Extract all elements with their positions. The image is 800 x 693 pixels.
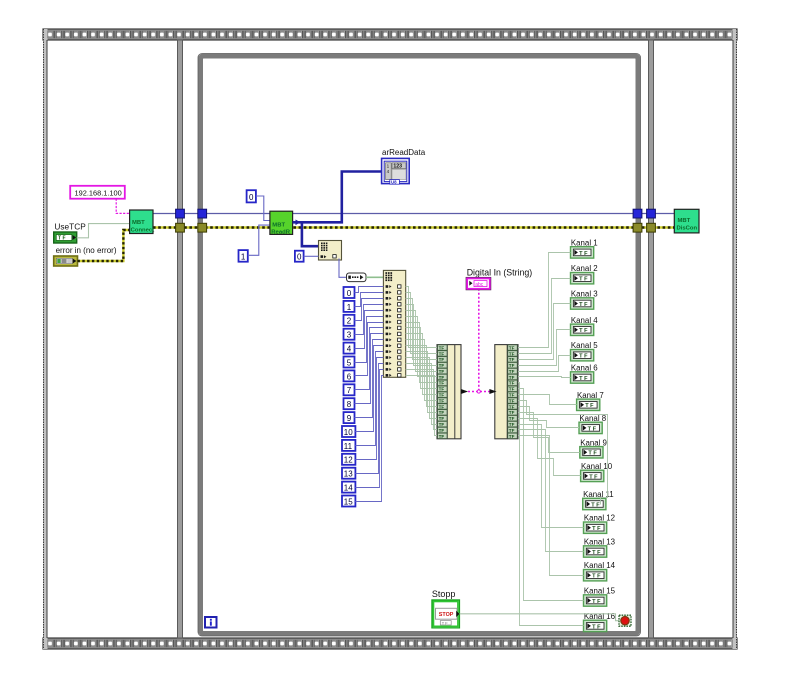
wire: right block output to Kanal 3 bbox=[518, 304, 571, 360]
error tunnel on while loop right bbox=[633, 223, 642, 232]
svg-text:T F: T F bbox=[589, 474, 598, 480]
number to boolean array node bbox=[347, 273, 367, 282]
label Kanal 2 bbox=[571, 264, 598, 273]
wire: TCP connection id (MBT Connect to MBT Disconnect) bbox=[153, 213, 674, 215]
wire: error cluster (MBT Connect to MBT Disconnect) bbox=[153, 226, 674, 229]
svg-text:UseTCP: UseTCP bbox=[54, 222, 86, 232]
boolean indicator Kanal 4 bbox=[571, 324, 594, 335]
svg-text:1: 1 bbox=[347, 303, 352, 312]
boolean indicator Kanal 5 bbox=[571, 350, 594, 361]
wire: constant 10 to index array input bbox=[355, 346, 383, 432]
svg-text:T F: T F bbox=[579, 376, 588, 382]
numeric constant 1 (start address) bbox=[239, 250, 248, 262]
numeric constant 15 (index) bbox=[342, 496, 355, 507]
label Kanal 3 bbox=[571, 290, 598, 299]
svg-text:DisCon: DisCon bbox=[677, 225, 698, 231]
svg-text:TF: TF bbox=[509, 410, 515, 415]
boolean indicator Kanal 8 bbox=[579, 422, 602, 433]
wire: right block output to Kanal 9 bbox=[518, 413, 580, 453]
loop condition terminal (stop if true) bbox=[619, 615, 631, 626]
label Kanal 8 bbox=[579, 414, 606, 423]
flat sequence frame divider 2 bbox=[649, 40, 654, 638]
error tunnel on divider 1 bbox=[176, 223, 185, 232]
svg-text:Connect: Connect bbox=[131, 228, 155, 234]
numeric constant 9 (index) bbox=[344, 412, 355, 423]
svg-text:TF: TF bbox=[509, 351, 515, 356]
numeric constant 0 (unit id) bbox=[247, 190, 256, 202]
svg-text:3: 3 bbox=[347, 331, 352, 340]
svg-text:6: 6 bbox=[347, 372, 352, 381]
label Stopp bbox=[432, 589, 456, 599]
boolean indicator Kanal 15 bbox=[584, 595, 607, 606]
boolean control Stopp bbox=[432, 600, 460, 628]
wire: index array output 6 to left block bbox=[406, 317, 437, 377]
boolean indicator Kanal 12 bbox=[584, 522, 607, 533]
svg-text:TF: TF bbox=[439, 357, 445, 362]
svg-text:TF: TF bbox=[439, 381, 445, 386]
svg-text:T F: T F bbox=[579, 302, 588, 308]
wire: Stopp to loop condition bbox=[460, 614, 620, 621]
array indicator arReadData bbox=[382, 158, 410, 184]
svg-text:TF: TF bbox=[439, 410, 445, 415]
svg-text:TF: TF bbox=[439, 387, 445, 392]
boolean indicator Kanal 6 bbox=[571, 372, 594, 383]
svg-text:Stopp: Stopp bbox=[432, 589, 456, 599]
index array node (first) bbox=[319, 241, 342, 261]
svg-text:TF: TF bbox=[509, 416, 515, 421]
numeric constant 13 (index) bbox=[342, 468, 355, 479]
svg-text:TF: TF bbox=[439, 375, 445, 380]
svg-text:0: 0 bbox=[249, 193, 254, 202]
label Kanal 5 bbox=[571, 341, 598, 350]
svg-text:MBT: MBT bbox=[678, 218, 691, 224]
wire: right block output to Kanal 1 bbox=[518, 253, 571, 348]
svg-text:4: 4 bbox=[387, 169, 390, 174]
svg-text:T F: T F bbox=[579, 277, 588, 283]
wire: index array output 9 to left block bbox=[406, 334, 437, 395]
wire: constant 5 to index array input bbox=[355, 317, 384, 363]
wire: index array output 1 to left block bbox=[406, 287, 437, 348]
svg-text:13: 13 bbox=[344, 470, 353, 479]
wire: index array output 2 to left block bbox=[406, 293, 437, 354]
svg-text:TF: TF bbox=[509, 428, 515, 433]
label Kanal 15 bbox=[584, 587, 616, 596]
MBT Disconnect node bbox=[674, 209, 699, 233]
flat sequence bottom border bbox=[43, 638, 737, 649]
label arReadData bbox=[382, 148, 426, 157]
svg-text:2: 2 bbox=[347, 317, 352, 326]
label Kanal 10 bbox=[581, 462, 613, 471]
wire: read data array (thick) to arReadData and index arrays bbox=[293, 172, 382, 247]
svg-text:T F: T F bbox=[592, 574, 601, 580]
flat sequence top border bbox=[43, 29, 737, 40]
string indicator Digital In bbox=[466, 277, 491, 289]
wire: constant 0 to index array input bbox=[355, 287, 384, 293]
svg-text:T F: T F bbox=[579, 354, 588, 360]
wire: constant 3 to index array input bbox=[355, 305, 384, 335]
svg-text:10: 10 bbox=[344, 428, 353, 437]
svg-text:123: 123 bbox=[393, 164, 402, 170]
wire: right block output to Kanal 8 bbox=[518, 407, 579, 428]
boolean indicator Kanal 14 bbox=[584, 570, 607, 581]
svg-text:4: 4 bbox=[347, 345, 352, 354]
numeric constant 11 (index) bbox=[342, 440, 355, 451]
string constant 192.168.1.100 bbox=[70, 186, 125, 199]
svg-text:TF: TF bbox=[509, 387, 515, 392]
numeric constant 8 (index) bbox=[344, 398, 355, 409]
wire: right block output to Kanal 13 bbox=[518, 430, 584, 552]
svg-text:TF: TF bbox=[509, 363, 515, 368]
wire: constant 15 to index array input bbox=[355, 376, 383, 502]
svg-text:T F: T F bbox=[579, 328, 588, 334]
boolean indicator Kanal 11 bbox=[583, 498, 606, 509]
svg-text:T F: T F bbox=[588, 451, 597, 457]
numeric constant 2 (index) bbox=[344, 315, 355, 326]
svg-text:TF: TF bbox=[439, 393, 445, 398]
label Kanal 14 bbox=[584, 561, 616, 570]
wire: constant 0 to MBT ReadDiscreteInputs bbox=[256, 196, 270, 221]
blue tunnel on while loop left bbox=[198, 209, 207, 218]
svg-text:ReadR: ReadR bbox=[271, 230, 290, 236]
svg-text:9: 9 bbox=[347, 414, 352, 423]
wire: constant 4 to index array input bbox=[355, 311, 384, 349]
numeric constant 7 (index) bbox=[344, 384, 355, 395]
index array node (expanded, 16 outputs) bbox=[383, 270, 405, 377]
svg-text:TF: TF bbox=[439, 398, 445, 403]
svg-text:7: 7 bbox=[347, 386, 352, 395]
svg-text:T F: T F bbox=[442, 620, 448, 625]
while loop border bbox=[198, 54, 641, 637]
wire: index array output 10 to left block bbox=[406, 340, 437, 401]
label Kanal 11 bbox=[583, 490, 614, 499]
svg-text:192.168.1.100: 192.168.1.100 bbox=[75, 189, 122, 198]
wire: constant 13 to index array input bbox=[355, 364, 383, 474]
wire: right block output to Kanal 15 bbox=[518, 389, 584, 601]
svg-text:MBT: MBT bbox=[132, 220, 145, 226]
wire: constant 11 to index array input bbox=[355, 352, 383, 446]
wire: index array output 8 to left block bbox=[406, 328, 437, 389]
wire: string between blocks with arrows bbox=[461, 389, 497, 394]
wire: index array output 16 to left block bbox=[406, 376, 437, 436]
blue tunnel on while loop right bbox=[633, 209, 642, 218]
boolean indicator Kanal 9 bbox=[580, 447, 603, 458]
label Kanal 13 bbox=[584, 538, 616, 547]
wire: right block output to Kanal 4 bbox=[518, 330, 571, 366]
svg-text:T F: T F bbox=[592, 599, 601, 605]
wire: constant 9 to index array input bbox=[355, 340, 384, 418]
wire: index array output 14 to left block bbox=[406, 364, 437, 425]
wire: constant 12 to index array input bbox=[355, 358, 383, 460]
blue tunnel on divider 1 bbox=[176, 209, 185, 218]
wire: right block output to Kanal 14 bbox=[518, 436, 584, 576]
numeric constant 14 (index) bbox=[342, 482, 355, 493]
wire: boolean array to big index array bbox=[366, 276, 383, 278]
flat sequence frame divider 1 bbox=[178, 40, 183, 638]
wire: constant 1 to MBT ReadDiscreteInputs bbox=[248, 225, 270, 255]
svg-text:11: 11 bbox=[344, 442, 353, 451]
svg-text:MBT: MBT bbox=[272, 222, 285, 228]
boolean indicator Kanal 1 bbox=[571, 247, 594, 258]
svg-text:T F: T F bbox=[591, 502, 600, 508]
error tunnel on divider 2 bbox=[647, 223, 656, 232]
boolean control UseTCP bbox=[54, 232, 77, 243]
boolean indicator Kanal 13 bbox=[584, 546, 607, 557]
wire: right block output to Kanal 6 bbox=[518, 377, 571, 378]
svg-text:T F: T F bbox=[588, 426, 597, 432]
label Kanal 9 bbox=[580, 438, 607, 447]
svg-text:STOP: STOP bbox=[439, 612, 454, 618]
svg-text:TF: TF bbox=[509, 422, 515, 427]
label UseTCP bbox=[54, 222, 86, 232]
svg-text:TF: TF bbox=[439, 351, 445, 356]
wire: index array output 5 to left block bbox=[406, 311, 437, 372]
svg-text:15: 15 bbox=[344, 497, 353, 506]
numeric constant 0 (index) bbox=[295, 251, 304, 262]
svg-text:TF: TF bbox=[509, 393, 515, 398]
boolean indicator Kanal 10 bbox=[581, 470, 604, 481]
wire: index array to number-to-boolean-array bbox=[339, 259, 347, 278]
label Kanal 16 bbox=[584, 612, 616, 621]
MBT Connect node bbox=[130, 210, 155, 234]
svg-text:TF: TF bbox=[509, 345, 515, 350]
svg-text:0: 0 bbox=[297, 253, 302, 262]
iteration terminal i bbox=[205, 617, 217, 628]
svg-text:14: 14 bbox=[344, 484, 353, 493]
wire: constant 2 to index array input bbox=[355, 299, 384, 321]
wire: index array output 12 to left block bbox=[406, 352, 437, 413]
numeric constant 6 (index) bbox=[344, 370, 355, 381]
svg-text:abc: abc bbox=[475, 282, 484, 288]
wire: index array output 3 to left block bbox=[406, 299, 437, 360]
svg-text:TF: TF bbox=[439, 416, 445, 421]
svg-text:TF: TF bbox=[439, 404, 445, 409]
svg-text:0: 0 bbox=[347, 289, 352, 298]
svg-text:5: 5 bbox=[347, 358, 352, 367]
numeric constant 10 (index) bbox=[342, 426, 355, 437]
numeric constant 12 (index) bbox=[342, 454, 355, 465]
string-to-boolean node (right block) bbox=[495, 345, 518, 439]
numeric constant 1 (index) bbox=[344, 301, 355, 312]
svg-text:error in (no error): error in (no error) bbox=[56, 246, 117, 255]
svg-text:T F: T F bbox=[592, 624, 601, 630]
label Kanal 4 bbox=[571, 316, 598, 325]
svg-text:TF: TF bbox=[439, 363, 445, 368]
svg-text:1: 1 bbox=[241, 252, 246, 261]
svg-text:U8: U8 bbox=[391, 179, 397, 184]
svg-text:T F: T F bbox=[58, 236, 66, 242]
wire: right block output to Kanal 2 bbox=[518, 279, 571, 354]
wire: constant 14 to index array input bbox=[355, 370, 383, 488]
svg-text:T F: T F bbox=[592, 526, 601, 532]
svg-text:arReadData: arReadData bbox=[382, 148, 426, 157]
svg-text:8: 8 bbox=[347, 400, 352, 409]
boolean indicator Kanal 16 bbox=[584, 620, 607, 631]
wire: right block output to Kanal 12 bbox=[518, 425, 584, 528]
wire: right block output to Kanal 11 bbox=[518, 401, 608, 505]
wire: error in to MBT Connect bbox=[78, 230, 130, 261]
label Digital In (String) bbox=[467, 268, 533, 278]
label Kanal 6 bbox=[571, 364, 598, 373]
numeric constant 0 (index) bbox=[344, 287, 355, 298]
label Kanal 12 bbox=[584, 514, 615, 523]
wire: constant 6 to index array input bbox=[355, 323, 384, 376]
numeric constant 3 (index) bbox=[344, 329, 355, 340]
wire: constant 8 to index array input bbox=[355, 334, 384, 404]
wire: constant 1 to index array input bbox=[355, 293, 384, 307]
wire: right block output to Kanal 7 bbox=[518, 395, 577, 405]
wire: right block output to Kanal 10 bbox=[518, 419, 581, 476]
wire: constant 0 to index array bbox=[304, 255, 319, 257]
svg-text:TF: TF bbox=[439, 434, 445, 439]
label Kanal 7 bbox=[577, 391, 604, 400]
wire: index array output 11 to left block bbox=[406, 346, 437, 407]
svg-text:TF: TF bbox=[439, 422, 445, 427]
svg-text:TF: TF bbox=[509, 434, 515, 439]
label error in (no error) bbox=[56, 246, 117, 255]
wire: string constant to MBT Connect bbox=[116, 199, 129, 214]
error in cluster control bbox=[54, 256, 78, 266]
svg-text:TF: TF bbox=[509, 357, 515, 362]
svg-text:TF: TF bbox=[509, 375, 515, 380]
wire: right block output to Kanal 5 bbox=[518, 356, 571, 372]
wire: index array output 7 to left block bbox=[406, 323, 437, 383]
flat sequence left border bbox=[43, 29, 48, 649]
label Kanal 1 bbox=[571, 238, 598, 247]
svg-text:1: 1 bbox=[387, 163, 390, 168]
svg-text:T F: T F bbox=[579, 251, 588, 257]
wire: index array output 13 to left block bbox=[406, 358, 437, 419]
svg-text:TF: TF bbox=[509, 369, 515, 374]
svg-text:TF: TF bbox=[509, 404, 515, 409]
flat sequence right border bbox=[733, 29, 738, 649]
wire: constant 7 to index array input bbox=[355, 328, 384, 390]
wire: index array output 4 to left block bbox=[406, 305, 437, 366]
svg-text:TF: TF bbox=[439, 369, 445, 374]
numeric constant 5 (index) bbox=[344, 357, 355, 368]
svg-text:12: 12 bbox=[344, 456, 353, 465]
MBT ReadDiscreteInputs node bbox=[270, 211, 293, 235]
svg-text:Digital In (String): Digital In (String) bbox=[467, 268, 533, 278]
wire: string to Digital In indicator bbox=[478, 289, 480, 390]
build array / to-string node (left block) bbox=[437, 345, 461, 439]
boolean indicator Kanal 3 bbox=[571, 298, 594, 309]
svg-text:TF: TF bbox=[509, 398, 515, 403]
error tunnel on while loop left bbox=[198, 223, 207, 232]
wire: index array output 15 to left block bbox=[406, 370, 437, 430]
svg-text:TF: TF bbox=[509, 381, 515, 386]
boolean indicator Kanal 7 bbox=[577, 399, 600, 410]
svg-text:TF: TF bbox=[439, 345, 445, 350]
svg-text:T F: T F bbox=[592, 550, 601, 556]
svg-text:T F: T F bbox=[585, 403, 594, 409]
boolean indicator Kanal 2 bbox=[571, 273, 594, 284]
wire: right block output to Kanal 16 bbox=[518, 383, 584, 626]
blue tunnel on divider 2 bbox=[647, 209, 656, 218]
wire: UseTCP to MBT Connect bbox=[77, 224, 130, 238]
numeric constant 4 (index) bbox=[344, 343, 355, 354]
svg-text:TF: TF bbox=[439, 428, 445, 433]
